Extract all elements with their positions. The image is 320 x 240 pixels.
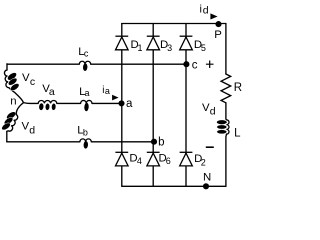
svg-text:R: R — [234, 82, 242, 94]
svg-text:1: 1 — [138, 43, 143, 53]
svg-text:a: a — [126, 98, 133, 110]
svg-text:d: d — [203, 4, 209, 16]
svg-text:6: 6 — [166, 156, 171, 166]
svg-text:5: 5 — [201, 43, 206, 53]
svg-text:a: a — [85, 88, 90, 98]
svg-text:N: N — [203, 172, 211, 184]
svg-text:P: P — [214, 29, 222, 41]
svg-text:4: 4 — [137, 156, 142, 166]
svg-text:i: i — [200, 4, 202, 16]
svg-text:c: c — [30, 76, 35, 88]
svg-text:c: c — [192, 59, 198, 71]
svg-text:a: a — [105, 86, 110, 96]
svg-text:V: V — [22, 72, 30, 84]
svg-text:n: n — [10, 96, 16, 108]
svg-text:b: b — [158, 136, 164, 148]
svg-text:d: d — [29, 125, 35, 137]
svg-text:a: a — [49, 86, 55, 98]
svg-text:b: b — [83, 127, 88, 137]
svg-text:2: 2 — [201, 158, 206, 168]
svg-text:d: d — [210, 106, 216, 118]
svg-text:L: L — [234, 128, 241, 140]
svg-text:3: 3 — [167, 43, 172, 53]
svg-text:c: c — [84, 48, 89, 58]
